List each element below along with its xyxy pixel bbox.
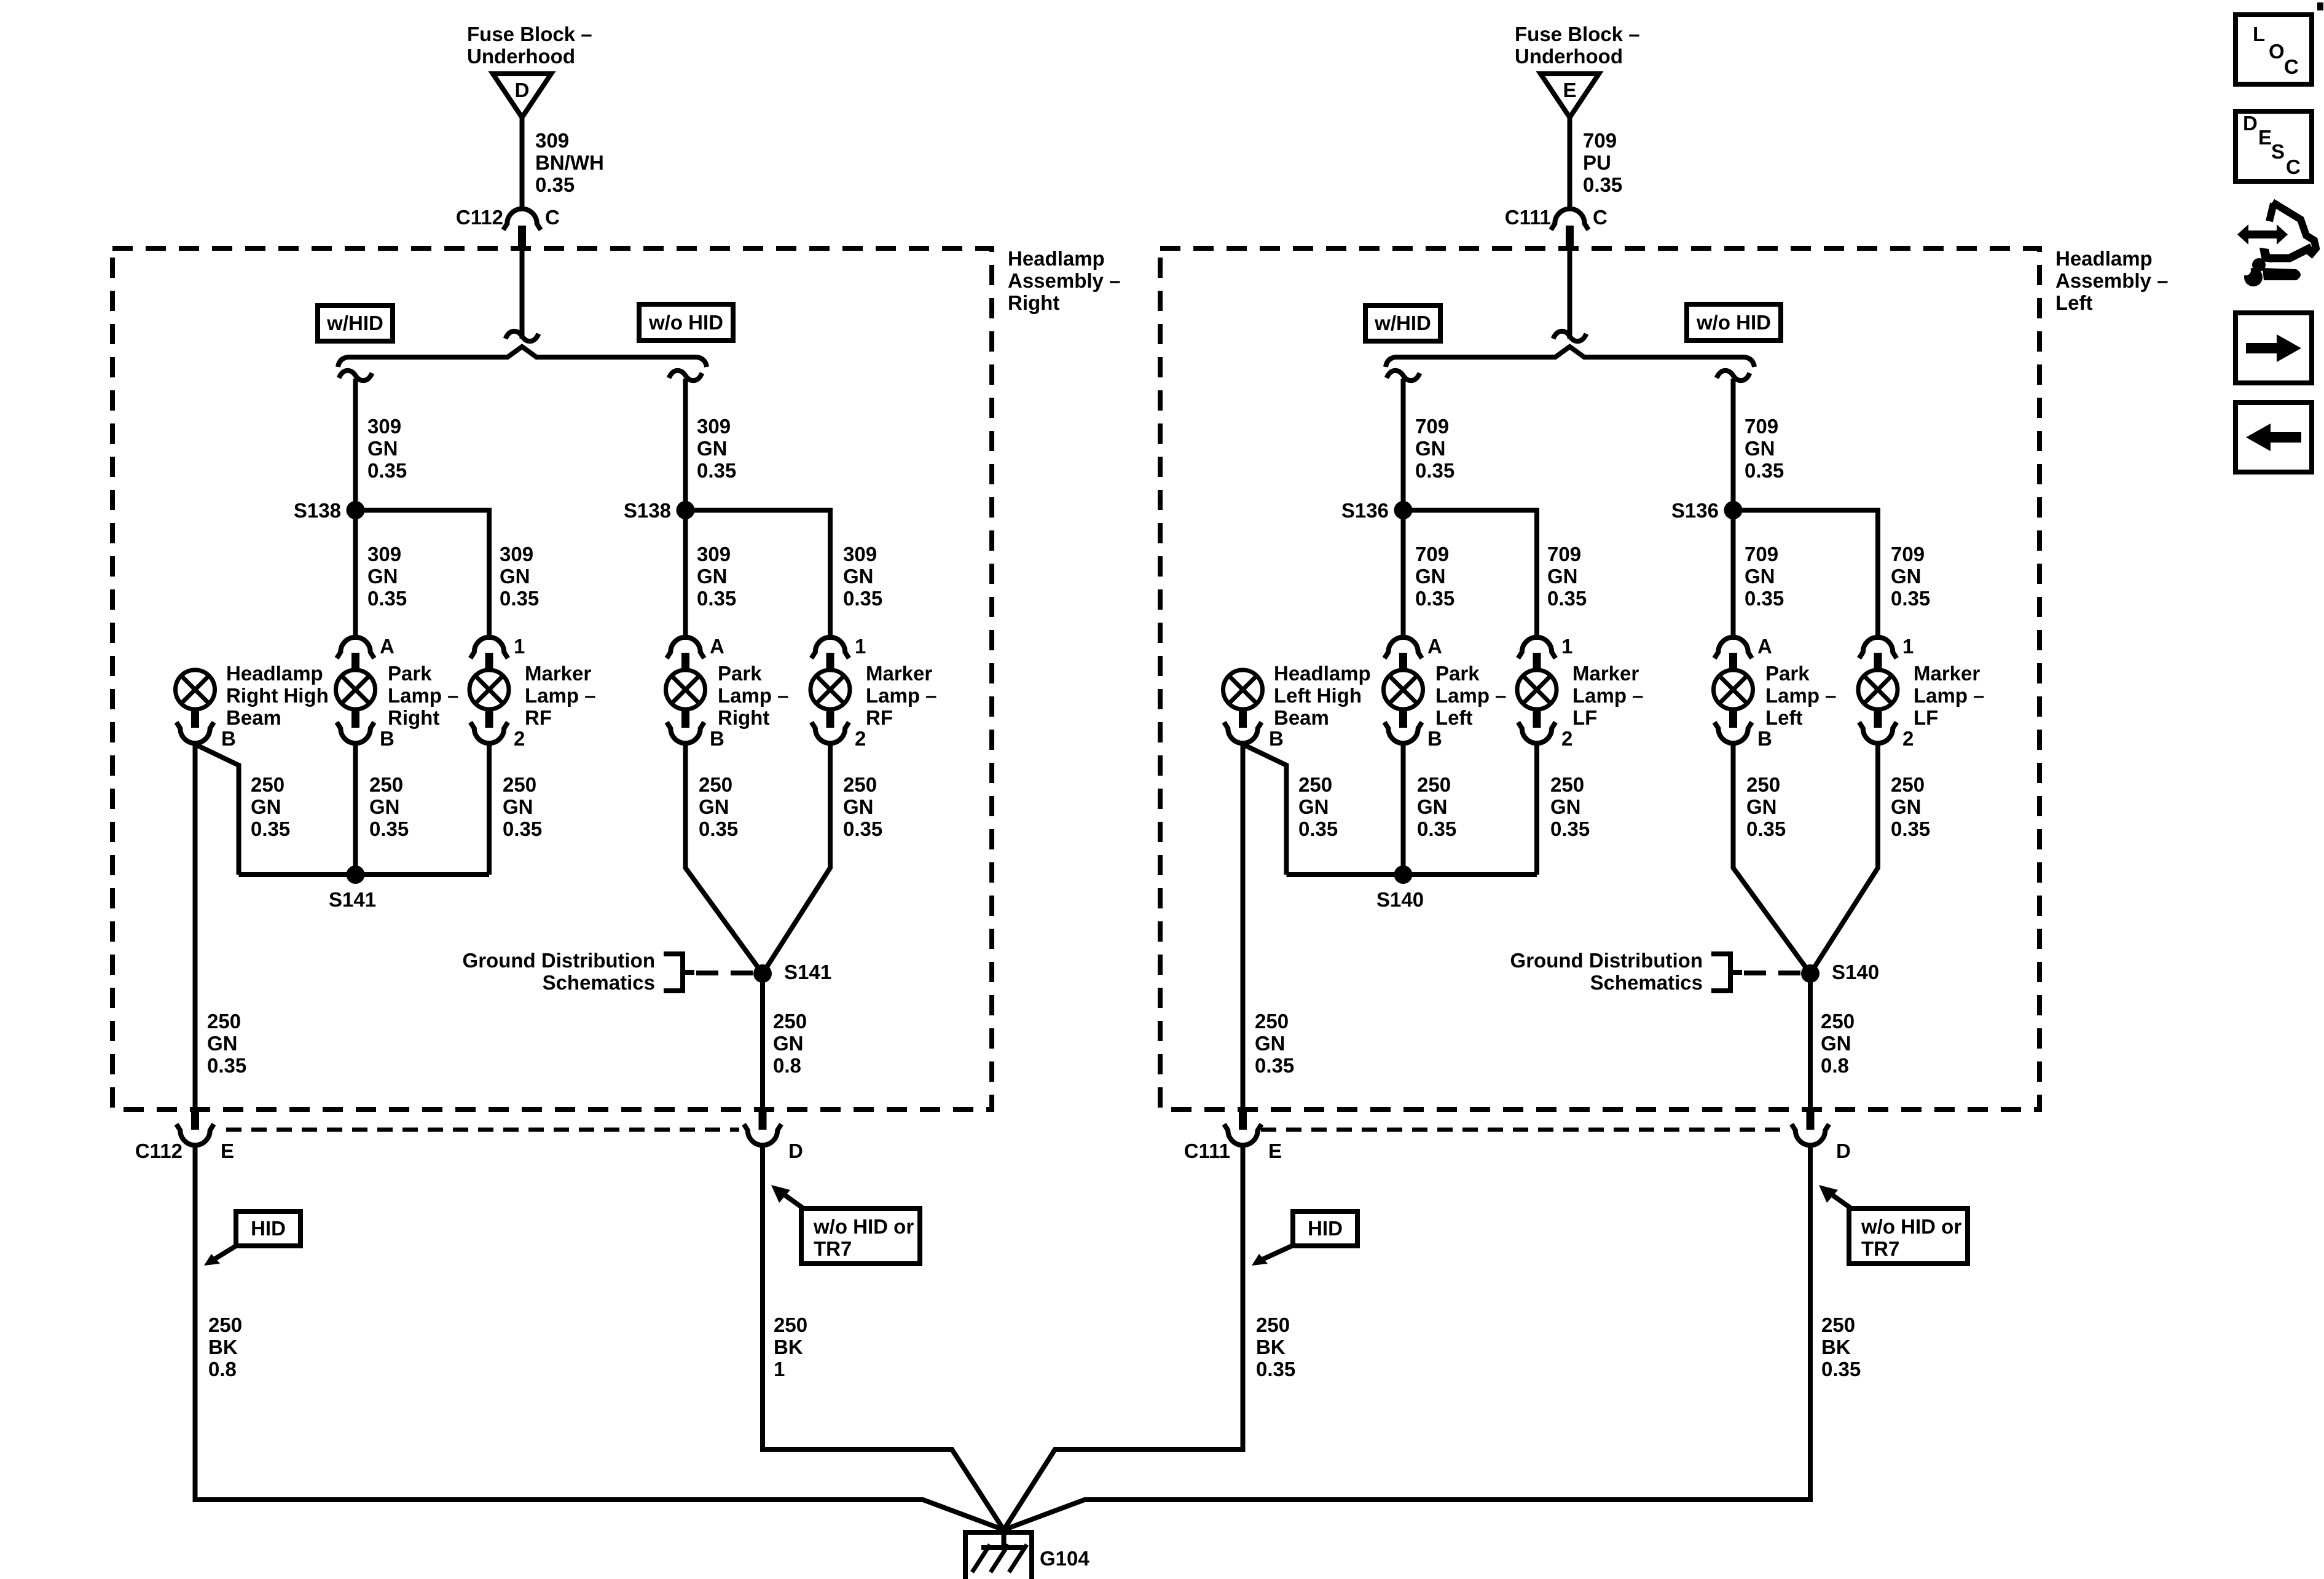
svg-text:0.35: 0.35 (207, 1054, 246, 1077)
svg-text:709: 709 (1891, 543, 1925, 565)
svg-text:D: D (2243, 112, 2258, 135)
icon box arrow right (2236, 313, 2312, 383)
svg-text:S136: S136 (1671, 499, 1719, 522)
svg-text:GN: GN (1415, 437, 1446, 460)
svg-text:Park: Park (1765, 662, 1810, 685)
splice S140 (w/o HID) (1801, 961, 1879, 983)
svg-text:0.35: 0.35 (697, 459, 736, 482)
wire label 250 GN 0.35 (ground drop) (207, 1010, 246, 1077)
svg-text:250: 250 (251, 773, 285, 796)
svg-text:BK: BK (1256, 1336, 1286, 1358)
svg-text:GN: GN (1550, 795, 1581, 818)
Park Lamp name label (388, 662, 459, 729)
svg-text:250: 250 (207, 1010, 241, 1033)
svg-text:Headlamp: Headlamp (1008, 247, 1105, 270)
svg-text:PU: PU (1583, 151, 1611, 174)
splice S141 (w/o HID) (753, 961, 831, 983)
svg-text:GN: GN (1745, 565, 1775, 588)
wire 250 BK 0.8 from C112 pin E to ground G104 (195, 1146, 1004, 1530)
wire 709 PU from fuse block to C111 pin C (1568, 117, 1572, 210)
svg-text:Fuse Block –: Fuse Block – (467, 23, 592, 45)
svg-text:0.35: 0.35 (843, 817, 882, 840)
svg-text:GN: GN (251, 795, 281, 818)
svg-text:GN: GN (207, 1032, 238, 1055)
wire marker lamp pin 2 to splice S141 (w/o HID) (763, 744, 830, 974)
wire label 250 GN 0.35 (marker return, w/o HID) (843, 773, 882, 840)
wire break symbol w/HID branch (339, 371, 372, 380)
svg-text:C112: C112 (456, 206, 503, 229)
svg-text:w/HID: w/HID (1374, 312, 1431, 334)
svg-text:GN: GN (1746, 795, 1777, 818)
svg-text:A: A (710, 635, 724, 658)
svg-text:HID: HID (1308, 1217, 1343, 1240)
wire label 250 GN 0.8 (1821, 1010, 1855, 1077)
svg-text:709: 709 (1547, 543, 1581, 565)
svg-text:A: A (1427, 635, 1442, 658)
svg-text:Park: Park (1435, 662, 1480, 685)
reference bracket (664, 954, 694, 991)
wire label 250 GN 0.35 (park return) (1417, 773, 1456, 840)
wire label 309 BN/WH 0.35 (535, 129, 604, 196)
svg-text:Lamp –: Lamp – (525, 684, 596, 707)
wire label 709 GN 0.35 (1745, 415, 1784, 482)
wire 309 GN 0.35 w/o HID branch down to splice S138 (683, 379, 688, 510)
wire break symbol at split feed (506, 331, 539, 341)
fuse block label (Left) (1515, 23, 1640, 68)
svg-text:2: 2 (514, 727, 525, 750)
wire 709 GN 0.35 w/HID branch down to splice S136 (1401, 379, 1406, 510)
svg-text:Marker: Marker (525, 662, 591, 685)
svg-text:GN: GN (503, 795, 533, 818)
svg-text:1: 1 (514, 635, 525, 658)
Ground Distribution Schematics reference label (463, 949, 655, 994)
wire park lamp pin B to splice S141 (w/o HID) (686, 744, 763, 974)
harness pass-through dashed line (left assembly side) (1261, 1128, 1789, 1132)
svg-text:0.35: 0.35 (369, 817, 409, 840)
wire label 309 GN 0.35 (marker, w/o HID) (843, 543, 882, 610)
svg-text:709: 709 (1415, 415, 1449, 438)
headlamp assembly Right dashed boundary box (112, 248, 992, 1109)
lamp: Marker Lamp LF (w/HID) (1517, 670, 1572, 750)
svg-text:Lamp –: Lamp – (1914, 684, 1985, 707)
wire 250 GN 0.35 high beam ground to C111 pin E (1241, 744, 1246, 1109)
connector pin 1 (marker lamp, w/HID) (1518, 635, 1573, 671)
svg-text:BK: BK (208, 1336, 238, 1358)
option tag HID with arrow (1252, 1211, 1357, 1266)
svg-text:309: 309 (367, 415, 401, 438)
svg-text:S141: S141 (784, 961, 831, 983)
svg-text:Ground Distribution: Ground Distribution (1510, 949, 1703, 972)
svg-text:Right: Right (718, 706, 769, 729)
connector C112 pin E (exit) (135, 1109, 234, 1162)
wire label 250 GN 0.35 (marker return) (503, 773, 542, 840)
option tag box w/o HID (639, 304, 733, 341)
svg-text:GN: GN (1417, 795, 1448, 818)
svg-text:1: 1 (1902, 635, 1914, 658)
svg-text:Ground Distribution: Ground Distribution (463, 949, 655, 972)
svg-text:Schematics: Schematics (1590, 971, 1703, 994)
wire splice S140 to connector pin D (1808, 974, 1813, 1109)
svg-text:E: E (221, 1140, 234, 1162)
svg-text:G104: G104 (1040, 1547, 1089, 1570)
svg-text:GN: GN (697, 565, 728, 588)
svg-text:309: 309 (697, 543, 731, 565)
svg-text:Underhood: Underhood (467, 45, 575, 68)
svg-text:B: B (221, 727, 236, 750)
lamp: Headlamp Right High Beam (176, 670, 215, 743)
svg-text:0.8: 0.8 (1821, 1054, 1849, 1077)
svg-text:0.35: 0.35 (1821, 1358, 1861, 1380)
ground symbol G104 (965, 1532, 1089, 1579)
Park Lamp name label (1435, 662, 1507, 729)
icon box DESC (2236, 111, 2312, 181)
Park Lamp name label (w/o HID) (718, 662, 789, 729)
svg-text:Left High: Left High (1274, 684, 1362, 707)
svg-text:GN: GN (369, 795, 400, 818)
svg-text:Lamp –: Lamp – (1435, 684, 1507, 707)
connector pin 1 (marker lamp, w/o HID) (812, 635, 866, 671)
splice S136 (w/o HID) (1671, 499, 1743, 522)
svg-text:250: 250 (843, 773, 877, 796)
wire label 709 GN 0.35 (park) (1415, 543, 1454, 610)
Park Lamp name label (w/o HID) (1765, 662, 1837, 729)
svg-text:TR7: TR7 (814, 1237, 852, 1260)
svg-text:GN: GN (1547, 565, 1578, 588)
svg-text:1: 1 (1561, 635, 1572, 658)
option tag HID with arrow (204, 1211, 300, 1266)
svg-text:GN: GN (500, 565, 530, 588)
svg-text:309: 309 (367, 543, 401, 565)
svg-text:0.35: 0.35 (251, 817, 290, 840)
svg-text:GN: GN (843, 565, 874, 588)
svg-text:Lamp –: Lamp – (1572, 684, 1644, 707)
svg-text:709: 709 (1415, 543, 1449, 565)
wire break symbol w/HID branch (1387, 371, 1420, 380)
svg-text:S138: S138 (294, 499, 341, 522)
svg-text:A: A (380, 635, 395, 658)
lamp: Park Lamp Right (w/HID) (336, 670, 395, 750)
svg-text:250: 250 (1891, 773, 1925, 796)
dashed reference link to splice S140 (1744, 971, 1801, 975)
svg-text:C: C (545, 206, 560, 229)
wire splice S136 to marker lamp pin 1 (w/o HID) (1733, 510, 1878, 640)
svg-text:GN: GN (367, 437, 398, 460)
svg-text:Assembly –: Assembly – (1008, 269, 1120, 292)
wire label 309 GN 0.35 (367, 415, 407, 482)
svg-text:0.35: 0.35 (699, 817, 738, 840)
svg-text:GN: GN (843, 795, 874, 818)
wire break symbol at split feed (1553, 331, 1587, 341)
svg-text:w/o HID or: w/o HID or (1861, 1215, 1961, 1238)
wire label 709 GN 0.35 (park, w/o HID) (1745, 543, 1784, 610)
splice S140 (w/HID) (1376, 865, 1424, 911)
lamp: Marker Lamp RF (w/HID) (469, 670, 525, 750)
svg-text:GN: GN (697, 437, 728, 460)
svg-text:Lamp –: Lamp – (718, 684, 789, 707)
dashed reference link to splice S141 (696, 971, 753, 975)
svg-text:Marker: Marker (1914, 662, 1980, 685)
svg-text:GN: GN (1745, 437, 1775, 460)
svg-text:2: 2 (1902, 727, 1914, 750)
svg-text:w/o HID: w/o HID (648, 311, 723, 334)
svg-text:Right High: Right High (226, 684, 329, 707)
svg-text:BK: BK (774, 1336, 803, 1358)
svg-text:250: 250 (1298, 773, 1332, 796)
svg-text:0.35: 0.35 (1547, 587, 1587, 610)
Marker Lamp name label (525, 662, 596, 729)
wire label 709 GN 0.35 (marker, w/o HID) (1891, 543, 1930, 610)
wire splice S136 to park lamp pin A (w/o HID) (1731, 510, 1736, 640)
svg-text:BN/WH: BN/WH (535, 151, 604, 174)
wire splice S141 to connector pin D (760, 974, 765, 1109)
reference bracket (1711, 954, 1742, 991)
svg-text:0.35: 0.35 (1745, 459, 1784, 482)
svg-text:250: 250 (369, 773, 403, 796)
wire marker lamp pin 2 to splice S140 (w/o HID) (1810, 744, 1878, 974)
svg-text:Left: Left (1765, 706, 1803, 729)
connector pin D (exit) (744, 1109, 803, 1162)
Headlamp Left High Beam name label (1274, 662, 1371, 729)
page corner tick (2317, 2, 2323, 10)
wire splice S136 to marker lamp pin 1 (1403, 510, 1537, 640)
svg-text:C: C (1593, 206, 1608, 229)
ground stub (1002, 1527, 1007, 1549)
svg-text:S: S (2271, 140, 2285, 163)
connector C112 pin C (456, 206, 560, 248)
svg-text:Lamp –: Lamp – (388, 684, 459, 707)
svg-text:1: 1 (855, 635, 866, 658)
svg-text:250: 250 (773, 1010, 807, 1033)
svg-text:0.35: 0.35 (367, 587, 407, 610)
svg-text:Schematics: Schematics (543, 971, 655, 994)
svg-text:GN: GN (1821, 1032, 1851, 1055)
svg-text:B: B (380, 727, 395, 750)
svg-text:D: D (515, 79, 530, 101)
svg-text:S140: S140 (1832, 961, 1879, 983)
lamp: Park Lamp Left (w/o HID) (1714, 670, 1772, 750)
connector pin A (park lamp left, w/HID) (1384, 635, 1442, 671)
svg-text:0.35: 0.35 (1415, 459, 1454, 482)
icon: harness routing with wrench (2236, 202, 2316, 286)
svg-text:S136: S136 (1341, 499, 1389, 522)
svg-text:GN: GN (773, 1032, 804, 1055)
lamp: Park Lamp Right (w/o HID) (666, 670, 724, 750)
wire 250 BK 0.35 from left headlamp pin D to ground G104 (1004, 1146, 1811, 1530)
option tag w/o HID or TR7 with arrow (1819, 1185, 1968, 1264)
icon box arrow left (2236, 403, 2312, 472)
connector pin D (exit) (1792, 1109, 1851, 1162)
icon box LOC (2236, 15, 2312, 84)
svg-text:2: 2 (1561, 727, 1572, 750)
wire label 250 GN 0.35 (park return, w/o HID) (1746, 773, 1786, 840)
wire 250 BK 1 from right headlamp pin D to ground G104 (763, 1146, 1004, 1530)
headlamp assembly Left dashed boundary box (1160, 248, 2039, 1109)
lamp: Marker Lamp RF (w/o HID) (811, 670, 866, 750)
svg-text:w/o HID or: w/o HID or (813, 1215, 914, 1238)
wire label 250 GN 0.35 (park return, w/o HID) (699, 773, 738, 840)
svg-text:S138: S138 (624, 499, 671, 522)
svg-text:0.35: 0.35 (1256, 1358, 1295, 1380)
option tag w/o HID or TR7 with arrow (771, 1185, 920, 1264)
wire 250 GN 0.35 high beam ground to C112 pin E (193, 744, 198, 1109)
svg-text:B: B (710, 727, 724, 750)
wire marker lamp pin 2 down to splice S140 (1534, 744, 1539, 875)
wire 309 GN 0.35 w/HID branch down to splice S138 (353, 379, 358, 510)
svg-text:250: 250 (1821, 1313, 1855, 1336)
svg-text:0.35: 0.35 (843, 587, 882, 610)
svg-text:C111: C111 (1505, 206, 1551, 229)
svg-text:RF: RF (525, 706, 552, 729)
svg-text:E: E (2258, 126, 2272, 149)
svg-text:0.35: 0.35 (1550, 817, 1590, 840)
splice S141 (w/HID) (329, 865, 376, 911)
svg-text:Park: Park (388, 662, 432, 685)
wire label 250 GN 0.8 (773, 1010, 807, 1077)
harness option split brace (1386, 347, 1754, 367)
svg-text:LF: LF (1914, 706, 1938, 729)
svg-text:D: D (1836, 1140, 1851, 1162)
svg-text:Assembly –: Assembly – (2055, 269, 2168, 292)
svg-text:Right: Right (1008, 291, 1059, 314)
wire splice S138 to marker lamp pin 1 (w/o HID) (686, 510, 831, 640)
wire label 309 GN 0.35 (marker) (500, 543, 539, 610)
svg-text:Park: Park (718, 662, 762, 685)
svg-text:309: 309 (843, 543, 877, 565)
svg-text:709: 709 (1745, 543, 1778, 565)
svg-text:Left: Left (1435, 706, 1473, 729)
svg-text:Marker: Marker (1572, 662, 1639, 685)
splice S136 (w/HID) (1341, 499, 1413, 522)
svg-text:0.35: 0.35 (697, 587, 736, 610)
svg-text:Right: Right (388, 706, 439, 729)
svg-text:Beam: Beam (1274, 706, 1329, 729)
svg-text:250: 250 (1255, 1010, 1289, 1033)
wire label 250 GN 0.35 (marker return) (1550, 773, 1590, 840)
connector pin A (park lamp, w/o HID) (667, 635, 724, 671)
svg-text:BK: BK (1821, 1336, 1851, 1358)
wire from C111 pin C to harness split (1568, 248, 1572, 339)
svg-text:C: C (2284, 55, 2299, 78)
svg-text:GN: GN (1298, 795, 1329, 818)
svg-text:Fuse Block –: Fuse Block – (1515, 23, 1640, 45)
svg-text:O: O (2269, 40, 2285, 63)
harness option split brace (338, 347, 707, 367)
svg-text:709: 709 (1583, 129, 1617, 152)
svg-text:Headlamp: Headlamp (226, 662, 323, 685)
svg-text:LF: LF (1572, 706, 1597, 729)
wire label 309 GN 0.35 (697, 415, 736, 482)
wire label 709 GN 0.35 (marker) (1547, 543, 1587, 610)
wire high beam pin B to splice S141 line (195, 744, 239, 875)
svg-text:250: 250 (1746, 773, 1780, 796)
svg-text:Headlamp: Headlamp (1274, 662, 1371, 685)
svg-text:GN: GN (699, 795, 729, 818)
svg-text:C111: C111 (1184, 1140, 1230, 1162)
Marker Lamp name label (w/o HID) (1914, 662, 1985, 729)
Marker Lamp name label (1572, 662, 1644, 729)
svg-text:0.35: 0.35 (1891, 817, 1930, 840)
svg-text:Beam: Beam (226, 706, 281, 729)
svg-text:S140: S140 (1376, 888, 1424, 911)
wire label 250 GN 0.35 (high beam return) (251, 773, 290, 840)
svg-text:0.35: 0.35 (1417, 817, 1456, 840)
svg-text:250: 250 (699, 773, 732, 796)
svg-text:w/HID: w/HID (326, 312, 383, 334)
svg-text:250: 250 (1256, 1313, 1290, 1336)
svg-text:GN: GN (367, 565, 398, 588)
svg-text:RF: RF (866, 706, 893, 729)
svg-text:250: 250 (1550, 773, 1584, 796)
wire park lamp pin B down to splice S141 (353, 744, 358, 875)
wire 250 BK 0.35 from C111 pin E to ground G104 (1004, 1146, 1243, 1530)
svg-text:Lamp –: Lamp – (1765, 684, 1837, 707)
svg-text:0.35: 0.35 (535, 173, 575, 196)
svg-text:B: B (1427, 727, 1442, 750)
wire park lamp pin B to splice S140 (w/o HID) (1733, 744, 1811, 974)
wire from C112 pin C to harness split (520, 248, 525, 339)
option tag box w/HID (1365, 305, 1440, 341)
svg-text:A: A (1757, 635, 1772, 658)
svg-text:C112: C112 (135, 1140, 183, 1162)
wire label 250 BK (C112 E ground) (208, 1313, 242, 1380)
svg-text:0.35: 0.35 (1255, 1054, 1294, 1077)
wire label 250 GN 0.35 (high beam return) (1298, 773, 1338, 840)
splice S138 (w/o HID) (624, 499, 695, 522)
harness pass-through dashed line (right assembly side) (226, 1128, 739, 1132)
svg-text:w/o HID: w/o HID (1696, 311, 1771, 334)
wire label 309 GN 0.35 (park, w/o HID) (697, 543, 736, 610)
option tag box w/o HID (1687, 304, 1781, 341)
svg-text:Left: Left (2055, 291, 2093, 314)
splice S140 joining line (w/HID) (1287, 872, 1537, 877)
wire 309 BN/WH from fuse block to C112 pin C (520, 117, 525, 210)
svg-text:GN: GN (1255, 1032, 1286, 1055)
headlamp assembly Left label (2055, 247, 2168, 314)
wire break symbol w/o HID branch (669, 371, 702, 380)
connector C111 pin E (exit) (1184, 1109, 1282, 1162)
svg-text:S141: S141 (329, 888, 376, 911)
lamp: Headlamp Left High Beam (1223, 670, 1263, 743)
wire splice S138 to park lamp pin A (w/o HID) (683, 510, 688, 640)
svg-text:Marker: Marker (866, 662, 932, 685)
svg-text:E: E (1563, 79, 1576, 101)
wire park lamp pin B down to splice S140 (1401, 744, 1406, 875)
power feed triangle D (Fuse Block Underhood) (493, 74, 551, 117)
svg-text:1: 1 (774, 1358, 785, 1380)
splice S141 joining line (w/HID) (239, 872, 490, 877)
svg-text:0.35: 0.35 (367, 459, 407, 482)
lamp: Park Lamp Left (w/HID) (1384, 670, 1442, 750)
svg-text:250: 250 (1417, 773, 1451, 796)
wire label 709 GN 0.35 (1415, 415, 1454, 482)
svg-text:B: B (1757, 727, 1772, 750)
svg-text:309: 309 (535, 129, 569, 152)
wire 709 GN 0.35 w/o HID branch down to splice S136 (1731, 379, 1736, 510)
fuse block label (Right) (467, 23, 592, 68)
wire label 250 GN 0.35 (ground drop) (1255, 1010, 1294, 1077)
svg-text:L: L (2253, 23, 2265, 45)
svg-text:0.35: 0.35 (1415, 587, 1454, 610)
svg-text:GN: GN (1891, 795, 1922, 818)
wire label 250 BK (C111 E ground) (1256, 1313, 1295, 1380)
splice S138 (w/HID) (294, 499, 365, 522)
svg-text:2: 2 (855, 727, 866, 750)
lamp: Marker Lamp LF (w/o HID) (1858, 670, 1914, 750)
headlamp assembly Right label (1008, 247, 1120, 314)
svg-text:TR7: TR7 (1861, 1237, 1899, 1260)
svg-text:0.35: 0.35 (500, 587, 539, 610)
wire label 250 GN 0.35 (park return) (369, 773, 409, 840)
